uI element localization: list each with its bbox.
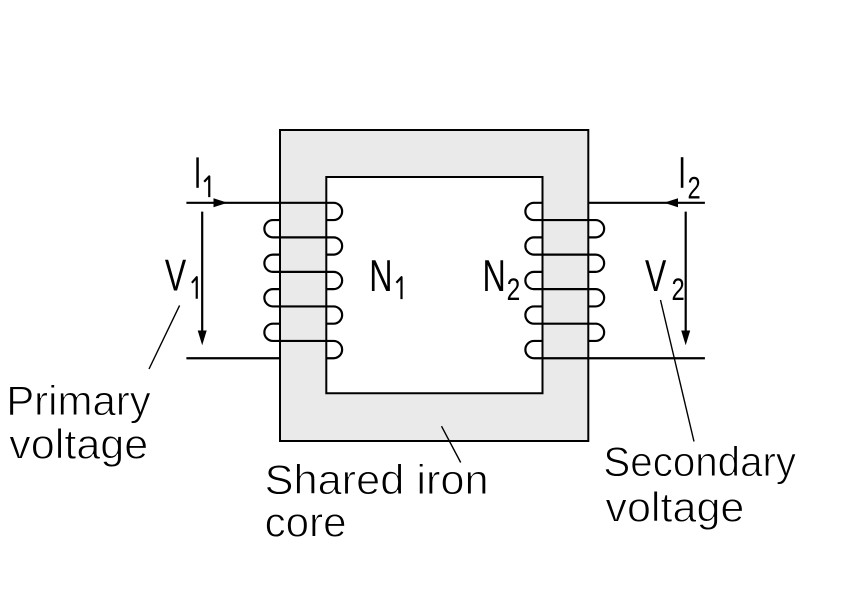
- svg-text:V: V: [645, 252, 666, 301]
- svg-text:Shared iron: Shared iron: [265, 456, 489, 503]
- svg-text:core: core: [265, 498, 347, 545]
- svg-text:2: 2: [687, 170, 700, 205]
- svg-text:voltage: voltage: [9, 421, 148, 468]
- svg-text:voltage: voltage: [605, 483, 744, 530]
- svg-text:Secondary: Secondary: [603, 438, 796, 485]
- svg-text:N: N: [369, 252, 392, 301]
- svg-text:Primary: Primary: [6, 377, 151, 424]
- svg-text:N: N: [483, 252, 506, 301]
- svg-text:2: 2: [672, 272, 685, 307]
- svg-text:V: V: [165, 251, 186, 300]
- svg-text:2: 2: [507, 271, 521, 307]
